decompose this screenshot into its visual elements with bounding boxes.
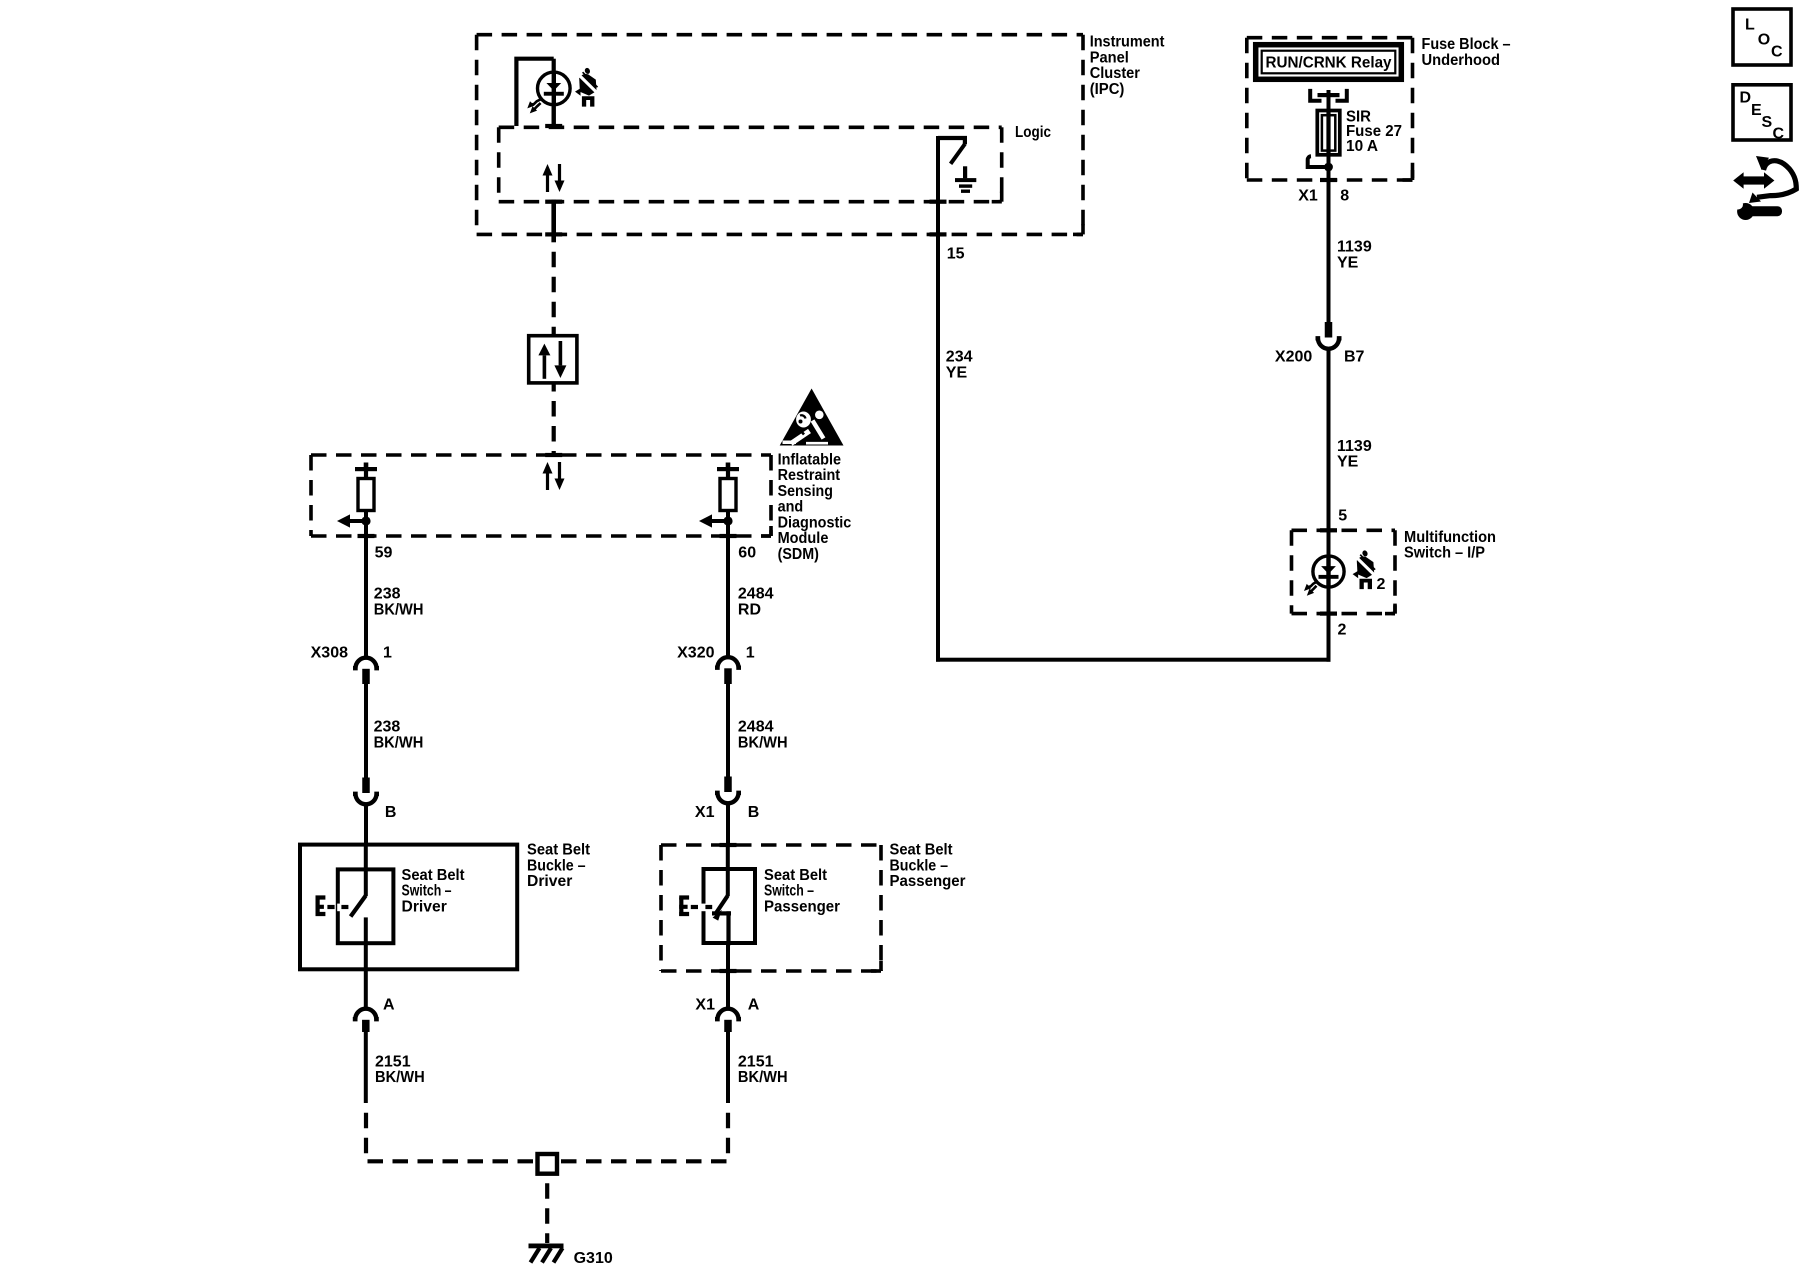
svg-text:(IPC): (IPC): [1090, 81, 1125, 98]
svg-text:Passenger: Passenger: [764, 898, 840, 915]
svg-text:B: B: [385, 804, 397, 821]
svg-text:BK/WH: BK/WH: [738, 734, 788, 751]
svg-text:Cluster: Cluster: [1090, 65, 1140, 82]
svg-text:Buckle –: Buckle –: [890, 858, 949, 875]
svg-text:and: and: [778, 499, 804, 516]
svg-text:5: 5: [1338, 508, 1347, 525]
svg-text:A: A: [383, 996, 395, 1013]
svg-text:B: B: [748, 804, 760, 821]
svg-text:X308: X308: [311, 645, 348, 662]
svg-text:1139: 1139: [1337, 438, 1372, 455]
svg-text:Seat Belt: Seat Belt: [402, 867, 466, 884]
svg-text:RUN/CRNK Relay: RUN/CRNK Relay: [1266, 54, 1392, 71]
svg-text:O: O: [1758, 32, 1770, 49]
svg-text:L: L: [1745, 17, 1755, 34]
svg-text:YE: YE: [1337, 454, 1359, 471]
svg-text:B7: B7: [1344, 349, 1365, 366]
svg-text:Driver: Driver: [527, 873, 572, 890]
svg-text:15: 15: [947, 245, 965, 262]
svg-text:2484: 2484: [738, 719, 774, 736]
svg-text:Seat Belt: Seat Belt: [890, 842, 954, 859]
svg-text:2: 2: [1377, 576, 1386, 593]
svg-text:Switch –: Switch –: [764, 883, 814, 900]
svg-text:59: 59: [375, 545, 393, 562]
svg-text:X1: X1: [695, 996, 715, 1013]
svg-text:8: 8: [1340, 188, 1349, 205]
svg-text:2151: 2151: [375, 1053, 411, 1070]
svg-text:Sensing: Sensing: [778, 483, 833, 500]
svg-text:A: A: [748, 996, 760, 1013]
svg-text:X200: X200: [1275, 349, 1312, 366]
svg-text:X320: X320: [677, 645, 714, 662]
svg-text:238: 238: [374, 586, 401, 603]
svg-text:C: C: [1771, 44, 1783, 61]
svg-text:238: 238: [374, 719, 401, 736]
svg-text:E: E: [1751, 102, 1762, 119]
svg-text:2484: 2484: [738, 586, 774, 603]
svg-text:Logic: Logic: [1015, 124, 1051, 141]
svg-text:Restraint: Restraint: [778, 467, 841, 484]
svg-text:1: 1: [746, 645, 755, 662]
svg-text:BK/WH: BK/WH: [374, 734, 424, 751]
svg-text:Diagnostic: Diagnostic: [778, 514, 852, 531]
svg-text:Driver: Driver: [402, 898, 447, 915]
svg-text:234: 234: [946, 349, 973, 366]
svg-text:10 A: 10 A: [1346, 138, 1378, 155]
svg-text:Inflatable: Inflatable: [778, 451, 841, 468]
svg-text:YE: YE: [1337, 254, 1359, 271]
svg-text:Passenger: Passenger: [890, 873, 966, 890]
svg-text:D: D: [1740, 90, 1752, 107]
svg-text:Buckle –: Buckle –: [527, 858, 586, 875]
svg-text:Underhood: Underhood: [1422, 52, 1501, 69]
svg-text:1: 1: [383, 645, 392, 662]
svg-text:BK/WH: BK/WH: [738, 1069, 788, 1086]
svg-text:X1: X1: [1298, 188, 1318, 205]
svg-text:Fuse Block –: Fuse Block –: [1422, 36, 1511, 53]
svg-text:S: S: [1762, 114, 1773, 131]
svg-text:Module: Module: [778, 530, 829, 547]
svg-text:Seat Belt: Seat Belt: [764, 867, 828, 884]
svg-text:Panel: Panel: [1090, 50, 1129, 67]
svg-text:2: 2: [1338, 621, 1347, 638]
svg-text:Multifunction: Multifunction: [1404, 529, 1496, 546]
svg-text:Switch –: Switch –: [402, 883, 452, 900]
svg-text:2151: 2151: [738, 1053, 774, 1070]
svg-text:Seat Belt: Seat Belt: [527, 842, 591, 859]
svg-text:(SDM): (SDM): [778, 546, 819, 563]
svg-text:C: C: [1773, 126, 1785, 143]
svg-text:G310: G310: [574, 1250, 613, 1267]
svg-text:Switch – I/P: Switch – I/P: [1404, 545, 1485, 562]
svg-text:BK/WH: BK/WH: [375, 1069, 425, 1086]
svg-text:BK/WH: BK/WH: [374, 602, 424, 619]
svg-text:60: 60: [738, 545, 756, 562]
svg-text:X1: X1: [695, 804, 715, 821]
svg-text:YE: YE: [946, 365, 968, 382]
svg-text:Instrument: Instrument: [1090, 34, 1165, 51]
svg-text:RD: RD: [738, 602, 761, 619]
svg-text:1139: 1139: [1337, 239, 1372, 256]
